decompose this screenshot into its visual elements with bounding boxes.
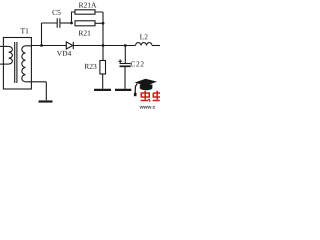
node right of resistor pair: [102, 22, 105, 25]
label VD4: [57, 51, 71, 56]
label + (C22 polarity): [118, 59, 122, 63]
label R21A: [79, 3, 97, 8]
label C22: [131, 61, 144, 66]
label C5: [52, 10, 60, 15]
wire primary top lead: [0, 45, 9, 47]
resistor R21A: [75, 10, 95, 14]
wire secondary bottom lead: [25, 82, 46, 101]
resistor R21: [75, 21, 95, 26]
label R21: [79, 31, 91, 36]
wire R23 bottom lead: [102, 74, 104, 89]
node left of resistor pair: [70, 22, 73, 25]
wire R21 right lead: [95, 22, 103, 24]
wire riser to C5 rail: [42, 23, 58, 46]
wire primary bottom lead: [0, 63, 9, 65]
wire C22 bottom lead: [124, 67, 126, 89]
ground (R23): [94, 89, 111, 91]
wire R21A right lead: [95, 12, 103, 23]
resistor R23: [100, 61, 106, 75]
transformer T1 box: [3, 38, 31, 90]
watermark www text: [140, 106, 156, 109]
watermark red character chong 1: [141, 91, 150, 102]
inductor L2: [136, 43, 153, 46]
wire stub up to R21A: [72, 12, 76, 23]
wire C5 to left node: [60, 22, 72, 24]
ground (C22): [115, 89, 131, 91]
node junction at riser: [40, 44, 43, 47]
ground (transformer): [39, 100, 53, 102]
node on main line at x103: [102, 44, 105, 47]
wire C22 top lead: [124, 46, 126, 64]
watermark graduation cap: [134, 79, 157, 96]
wire L2 to right edge: [152, 45, 160, 47]
transformer T1 primary winding: [9, 46, 13, 64]
wire diode to L2: [74, 45, 136, 47]
wire secondary top lead to diode: [25, 45, 66, 47]
capacitor C22: [120, 63, 131, 65]
label R23: [84, 64, 96, 69]
label L2: [140, 34, 148, 39]
watermark red character chong 2: [153, 91, 160, 101]
label T1: [21, 28, 29, 33]
transformer T1 secondary winding: [22, 46, 26, 82]
wire right node down to main line: [102, 23, 104, 60]
diode VD4: [66, 42, 73, 49]
node C22 tap: [124, 44, 127, 47]
capacitor C5: [57, 18, 60, 27]
transformer core: [15, 42, 17, 83]
